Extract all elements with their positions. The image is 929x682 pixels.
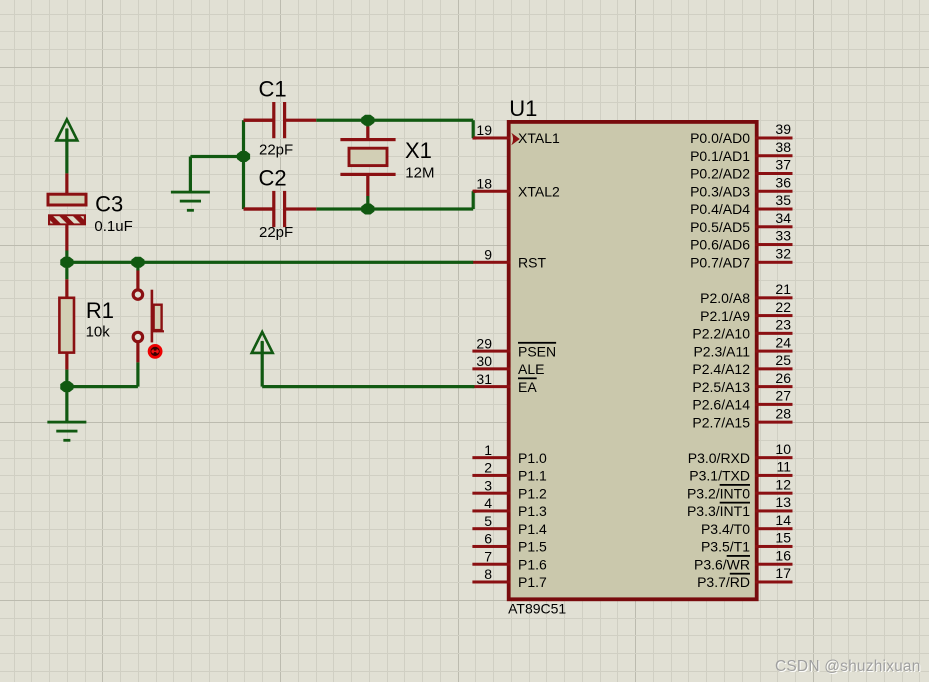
svg-text:ALE: ALE: [518, 361, 544, 377]
svg-text:P2.1/A9: P2.1/A9: [700, 308, 750, 324]
svg-text:P1.6: P1.6: [518, 556, 547, 572]
svg-text:37: 37: [775, 157, 791, 173]
svg-text:31: 31: [476, 371, 492, 387]
svg-text:P1.7: P1.7: [518, 574, 547, 590]
svg-text:P1.3: P1.3: [518, 503, 547, 519]
svg-text:12M: 12M: [405, 164, 434, 181]
svg-text:10k: 10k: [86, 323, 111, 340]
svg-text:P3.6/WR: P3.6/WR: [694, 556, 750, 572]
svg-text:30: 30: [476, 353, 492, 369]
svg-text:17: 17: [775, 565, 791, 581]
svg-text:P2.5/A13: P2.5/A13: [692, 379, 750, 395]
svg-text:R1: R1: [86, 298, 114, 323]
svg-text:RST: RST: [518, 255, 546, 271]
svg-text:27: 27: [775, 388, 791, 404]
svg-text:6: 6: [484, 531, 492, 547]
svg-text:P1.2: P1.2: [518, 485, 547, 501]
svg-text:EA: EA: [518, 379, 537, 395]
svg-text:P2.4/A12: P2.4/A12: [692, 361, 750, 377]
svg-text:P1.0: P1.0: [518, 450, 547, 466]
svg-text:11: 11: [776, 459, 791, 475]
svg-text:8: 8: [484, 566, 492, 582]
svg-text:1: 1: [484, 442, 492, 458]
svg-text:3: 3: [484, 477, 492, 493]
svg-text:23: 23: [775, 317, 791, 333]
svg-text:P3.3/INT1: P3.3/INT1: [687, 503, 750, 519]
svg-text:P1.4: P1.4: [518, 521, 547, 537]
svg-text:14: 14: [775, 512, 791, 528]
svg-text:P2.0/A8: P2.0/A8: [700, 290, 750, 306]
svg-text:XTAL1: XTAL1: [518, 130, 560, 146]
svg-text:35: 35: [775, 192, 791, 208]
svg-text:22pF: 22pF: [259, 141, 293, 158]
svg-text:4: 4: [484, 495, 492, 511]
svg-text:P0.0/AD0: P0.0/AD0: [690, 130, 750, 146]
svg-text:C2: C2: [259, 166, 287, 191]
svg-text:P1.5: P1.5: [518, 539, 547, 555]
svg-text:C3: C3: [95, 191, 123, 216]
svg-text:28: 28: [775, 405, 791, 421]
svg-text:P2.6/A14: P2.6/A14: [692, 397, 750, 413]
svg-text:P3.1/TXD: P3.1/TXD: [689, 468, 750, 484]
svg-text:AT89C51: AT89C51: [508, 601, 566, 617]
svg-text:34: 34: [775, 210, 791, 226]
svg-text:12: 12: [775, 476, 791, 492]
svg-text:XTAL2: XTAL2: [518, 183, 560, 199]
svg-text:21: 21: [775, 281, 791, 297]
svg-text:18: 18: [476, 175, 492, 191]
svg-text:24: 24: [775, 334, 791, 350]
svg-text:10: 10: [775, 441, 791, 457]
svg-text:29: 29: [476, 335, 492, 351]
svg-text:38: 38: [775, 139, 791, 155]
svg-text:P2.7/A15: P2.7/A15: [692, 414, 750, 430]
svg-text:39: 39: [775, 121, 791, 137]
svg-text:P0.7/AD7: P0.7/AD7: [690, 255, 750, 271]
svg-text:P3.2/INT0: P3.2/INT0: [687, 485, 750, 501]
svg-text:P0.3/AD3: P0.3/AD3: [690, 183, 750, 199]
svg-text:P3.4/T0: P3.4/T0: [701, 521, 750, 537]
svg-text:U1: U1: [509, 96, 537, 121]
svg-text:9: 9: [484, 247, 492, 263]
svg-text:P0.2/AD2: P0.2/AD2: [690, 166, 750, 182]
svg-text:X1: X1: [405, 138, 432, 163]
svg-text:P0.6/AD6: P0.6/AD6: [690, 237, 750, 253]
svg-text:P0.4/AD4: P0.4/AD4: [690, 201, 750, 217]
svg-text:2: 2: [484, 460, 492, 476]
svg-text:7: 7: [484, 548, 492, 564]
svg-text:P3.0/RXD: P3.0/RXD: [688, 450, 750, 466]
svg-text:25: 25: [775, 352, 791, 368]
svg-text:16: 16: [775, 547, 791, 563]
svg-text:36: 36: [775, 174, 791, 190]
svg-text:PSEN: PSEN: [518, 343, 556, 359]
svg-text:5: 5: [484, 513, 492, 529]
svg-text:0.1uF: 0.1uF: [94, 218, 132, 235]
svg-text:19: 19: [476, 122, 492, 138]
svg-text:C1: C1: [259, 77, 287, 102]
svg-text:22: 22: [775, 299, 791, 315]
svg-text:13: 13: [775, 494, 791, 510]
svg-text:32: 32: [775, 246, 791, 262]
svg-text:P3.5/T1: P3.5/T1: [701, 539, 750, 555]
svg-text:P0.5/AD5: P0.5/AD5: [690, 219, 750, 235]
svg-text:22pF: 22pF: [259, 224, 293, 241]
svg-text:P2.2/A10: P2.2/A10: [692, 326, 750, 342]
svg-text:26: 26: [775, 370, 791, 386]
svg-text:P2.3/A11: P2.3/A11: [693, 343, 750, 359]
svg-text:33: 33: [775, 228, 791, 244]
svg-text:P3.7/RD: P3.7/RD: [697, 574, 750, 590]
svg-text:15: 15: [775, 530, 791, 546]
svg-text:P1.1: P1.1: [518, 468, 547, 484]
svg-text:P0.1/AD1: P0.1/AD1: [690, 148, 750, 164]
